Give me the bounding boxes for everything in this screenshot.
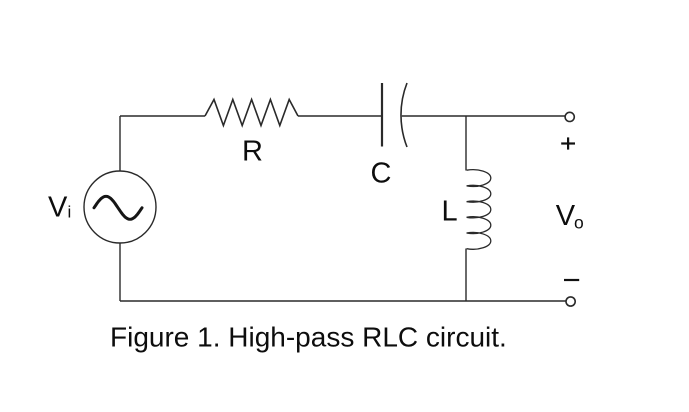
svg-text:C: C <box>371 158 392 190</box>
svg-text:i: i <box>68 202 72 221</box>
svg-text:V: V <box>556 200 576 232</box>
svg-text:L: L <box>442 196 458 228</box>
svg-text:V: V <box>48 191 68 223</box>
svg-text:R: R <box>242 135 263 167</box>
svg-text:o: o <box>574 213 584 233</box>
svg-text:Figure 1. High-pass RLC circui: Figure 1. High-pass RLC circuit. <box>110 322 507 353</box>
